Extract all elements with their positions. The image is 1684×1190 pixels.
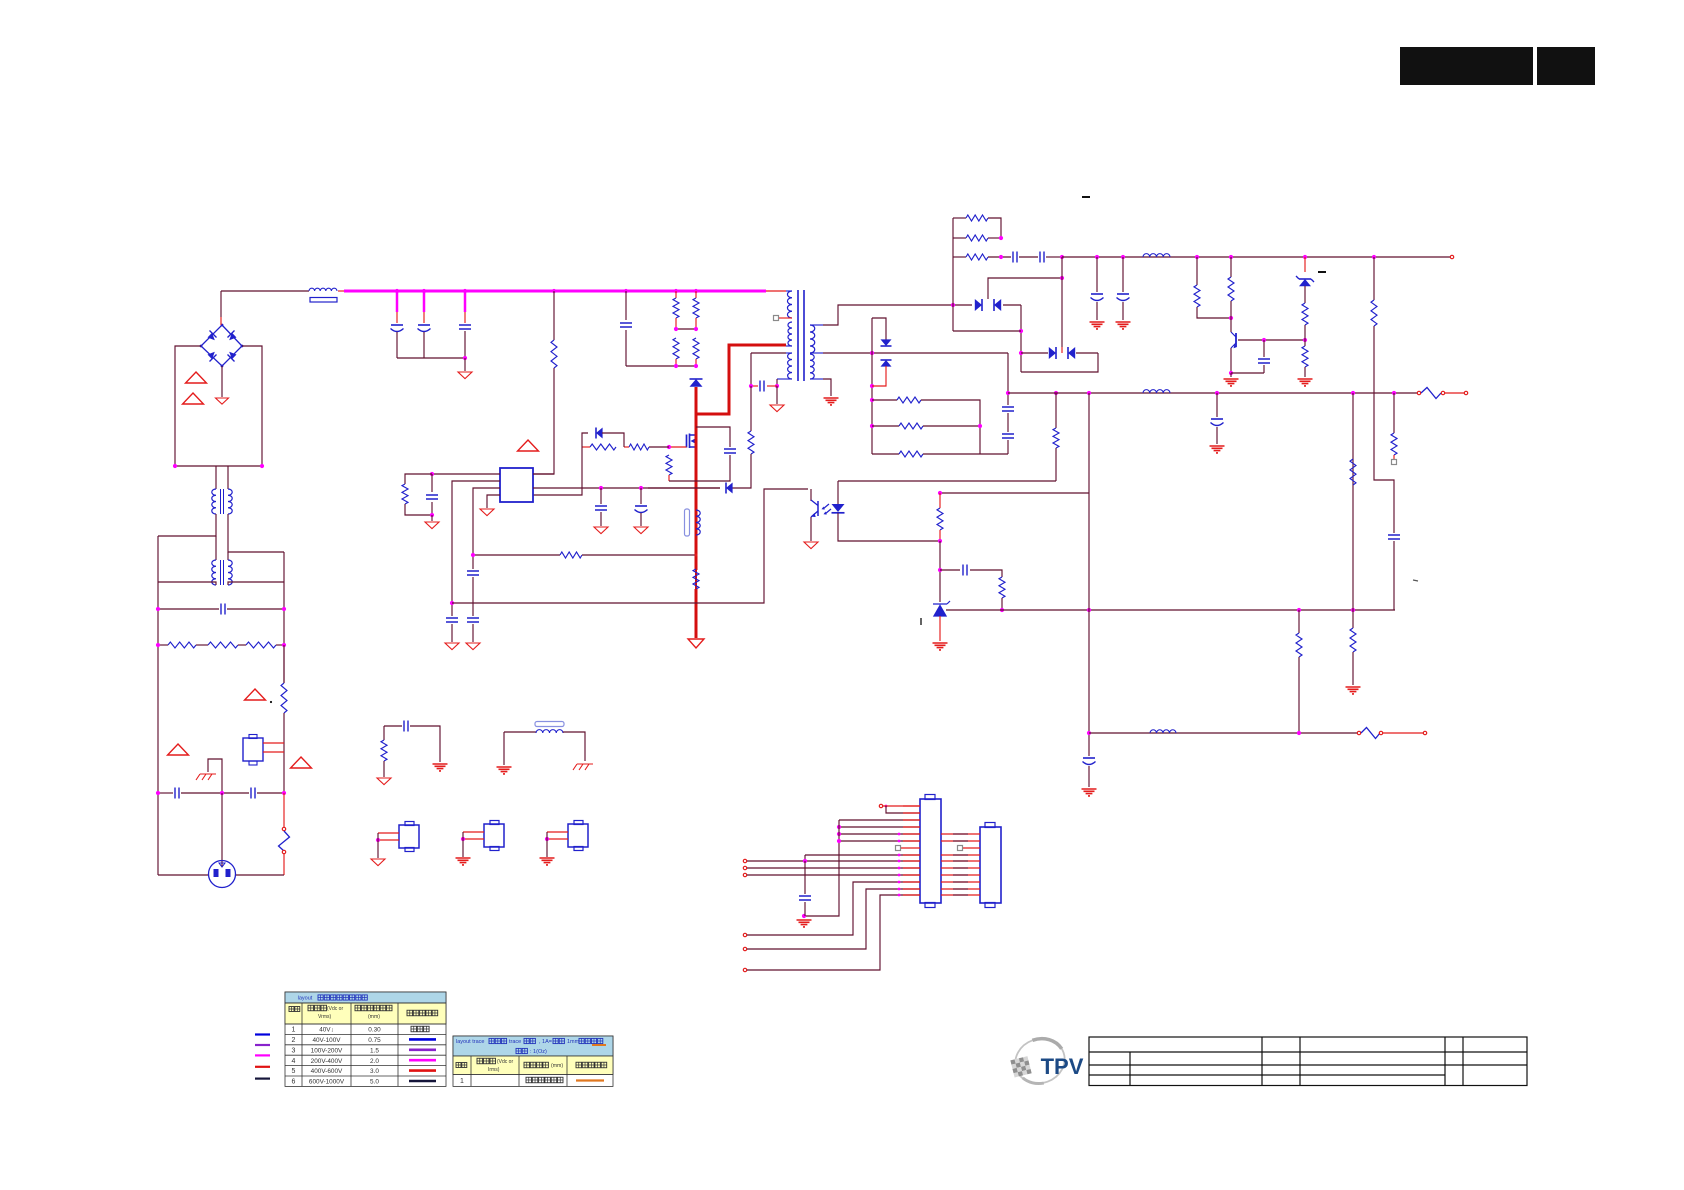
svg-text:1: 1	[460, 1078, 464, 1085]
fuse F3 right terminal	[1379, 731, 1382, 734]
wire CN1 pin red stubs	[903, 805, 920, 807]
wire CN1-CN2 link 1	[941, 840, 980, 842]
wire R33 tail	[1298, 657, 1300, 733]
wire tvs top	[872, 318, 886, 340]
wire tvs bottom	[872, 366, 886, 386]
wire R row b	[196, 644, 208, 646]
junction x872 386	[870, 384, 874, 388]
junction bus x=676	[674, 289, 678, 293]
svg-text:6: 6	[292, 1079, 296, 1086]
table1 row6 colour sample	[409, 1080, 436, 1083]
junction aux cap right	[775, 384, 779, 388]
wire CM choke LF1 leads top2	[227, 466, 229, 489]
capacitor C23	[1388, 535, 1400, 539]
inductor L4 output top	[1143, 254, 1170, 257]
resistor R18 fb	[999, 577, 1005, 598]
capacitor C4 snubber	[620, 323, 632, 327]
table1 row4 colour sample	[409, 1059, 436, 1062]
title banner block 1	[1400, 47, 1533, 85]
transistor U3 TL431	[933, 604, 947, 616]
svg-text:400V-600V: 400V-600V	[311, 1068, 343, 1075]
T1 secondary coil 1	[810, 325, 815, 353]
resistor R34 spare	[381, 740, 387, 761]
junction pin5	[837, 832, 841, 836]
junction choke top right	[260, 464, 264, 468]
label tick mark 3	[1413, 580, 1418, 581]
wire LF2 bottom right	[228, 582, 284, 585]
wire CN1 pin1	[883, 805, 920, 807]
junction x804 861	[803, 859, 807, 863]
capacitor CY1	[175, 788, 179, 799]
wire snub Rb top	[695, 291, 697, 298]
resistor R17 divider	[937, 508, 943, 530]
wire x1062 vertical	[1061, 257, 1063, 347]
junction bus x=554	[552, 289, 556, 293]
junction 257 x1197	[1195, 255, 1199, 259]
resistor R33	[1296, 633, 1302, 657]
wire aux cap right stub	[767, 385, 777, 387]
warning triangle W3	[245, 689, 266, 700]
wire snub Rd bot	[695, 359, 697, 366]
wire R27 lower	[1304, 325, 1306, 340]
wire CM choke LF1 leads top	[215, 466, 217, 489]
resistor R11 gate	[629, 444, 649, 450]
capacitor C11 vcc	[595, 506, 607, 510]
ground comp	[425, 522, 439, 529]
junction stack row2	[999, 236, 1003, 240]
resistor R35 fb tap	[1053, 428, 1059, 448]
diode D9 zener	[1299, 279, 1311, 286]
wire CN1 pin3	[839, 819, 920, 821]
resistor R21 snub	[966, 254, 988, 260]
junction x1089 733	[1087, 731, 1091, 735]
wire CN1 pin11	[747, 874, 920, 876]
svg-text:0.75: 0.75	[368, 1037, 381, 1044]
wire snub bottom row	[626, 365, 696, 367]
svg-text:5.0: 5.0	[370, 1079, 379, 1086]
junction CN1 red 0	[898, 833, 901, 836]
junction 393 x1089	[1087, 391, 1091, 395]
wire gate diode branch b	[602, 433, 624, 447]
wire X-cap row right	[227, 608, 284, 610]
resistor R29	[1371, 300, 1377, 326]
resistor R14 sense	[693, 569, 699, 589]
wire C21 stub	[1122, 257, 1124, 292]
diode D6 rectifier2	[1049, 347, 1056, 359]
wire R30 stub	[1393, 393, 1395, 433]
wire U1 pin VREF	[533, 473, 554, 475]
wire F2 out	[1445, 392, 1464, 394]
svg-text:2.0: 2.0	[370, 1058, 379, 1065]
wire CN1 pin8	[805, 854, 920, 856]
wire J4 gnd	[546, 832, 548, 857]
junction pin4	[837, 825, 841, 829]
junction snub bot b	[694, 364, 698, 368]
inductor L1 arcs	[309, 288, 337, 291]
svg-text:layout trace: layout trace	[456, 1039, 484, 1045]
ground J2	[371, 859, 385, 866]
bridge rectifier BR1	[201, 325, 242, 366]
wire out rail 733	[1089, 732, 1357, 734]
wire sec S1 riser	[823, 305, 972, 325]
junction aux cap left	[749, 384, 753, 388]
wire CN1 pin9	[747, 860, 920, 862]
wire bridge AC2	[242, 346, 262, 466]
junction 393 x1394	[1392, 391, 1396, 395]
wire spare L gnd	[503, 732, 505, 765]
wire sense R row mid	[872, 425, 899, 427]
op-amp U1 PWM controller	[500, 468, 533, 502]
wire red through sense R	[695, 570, 697, 589]
T1 aux coil	[788, 353, 792, 379]
capacitor C17 out	[1002, 407, 1014, 411]
wire stack row1 b	[988, 218, 1001, 238]
table2 h1	[456, 1063, 461, 1068]
wire sec pin S1	[810, 324, 823, 326]
bridge diode D-BL	[208, 352, 215, 359]
junction Y row left	[156, 791, 160, 795]
wire vcc rail mid	[648, 487, 720, 489]
wire R30 tail	[1393, 455, 1395, 459]
capacitor C7 comp	[426, 495, 438, 499]
wire emitter cap row	[1231, 372, 1264, 374]
table2 title c4	[579, 1038, 584, 1043]
ground C8	[445, 643, 459, 650]
resistor R2 discharge	[208, 642, 238, 648]
svg-text:1: 1	[292, 1027, 296, 1034]
terminal primary tap	[774, 316, 779, 321]
wire spare RC right	[410, 726, 440, 762]
wire cap bottoms row	[397, 357, 465, 359]
wire spare RC top	[384, 725, 402, 727]
wire fb divider rail	[938, 492, 1089, 494]
diode D8b	[881, 360, 892, 367]
wire CN1-CN2 link 6	[941, 881, 980, 883]
fuse F2 left terminal	[1417, 391, 1420, 394]
wire R17 upper stub	[939, 493, 941, 508]
wire snub Rc bot	[675, 359, 677, 366]
capacitor C9 CS	[467, 571, 479, 575]
junction Y row right	[282, 791, 286, 795]
wire spare L left	[504, 731, 536, 733]
wire snub caps out	[1046, 256, 1062, 258]
wire gate row b	[624, 446, 629, 448]
svg-text:trace: trace	[509, 1039, 521, 1045]
wire sec S3 gnd	[823, 379, 831, 396]
wire cap C22 lower	[1263, 365, 1265, 373]
junction J3	[461, 837, 465, 841]
wire J4 pin1	[547, 831, 568, 833]
wire pulldown bottom	[668, 475, 670, 481]
wire R26 col	[1230, 257, 1232, 277]
title banner block 2	[1537, 47, 1595, 85]
capacitor C10 CS2	[467, 618, 479, 622]
terminal CN1 aux	[879, 804, 882, 807]
wire rect common	[988, 278, 1062, 299]
junction shunt mid	[978, 424, 982, 428]
bridge diode D-TL	[208, 333, 215, 340]
junction fb divider top	[938, 491, 942, 495]
wire aux cap left stub	[751, 385, 758, 387]
ground secondary	[824, 398, 839, 405]
wire x804 cap upper	[804, 861, 806, 894]
wire x1374 upper	[1373, 257, 1375, 300]
junction R row right	[282, 643, 286, 647]
legend sample line 4	[255, 1066, 270, 1068]
ground spare R	[377, 778, 391, 785]
warning triangle W6	[518, 440, 539, 451]
wire choke row top	[175, 465, 262, 467]
wire snub Ra mid	[675, 318, 677, 329]
resistor R5 startup	[551, 340, 557, 368]
resistor R9 snubber	[693, 338, 699, 359]
capacitor C15 snub	[1013, 252, 1017, 263]
resistor R10 vcc feed	[748, 431, 754, 454]
wire C19 lower	[1216, 427, 1218, 444]
wire pin8 drop	[804, 855, 806, 861]
svg-text:, 1A=: , 1A=	[539, 1039, 552, 1045]
wire C8 lower	[451, 624, 453, 642]
wire sense row top b	[921, 400, 980, 454]
resistor R23 shunt	[899, 423, 923, 429]
wire R row c	[238, 644, 246, 646]
node dot near W3	[270, 701, 272, 703]
wire vcc cap2 stub	[640, 488, 642, 504]
wire RT1 lead a	[263, 742, 284, 744]
wire gate lead	[669, 446, 687, 448]
warning triangle W5	[291, 757, 312, 768]
wire left rail EMI	[157, 536, 159, 875]
junction 610 x1353	[1351, 608, 1355, 612]
logo TPV checker	[1010, 1059, 1015, 1064]
svg-text:Vrms): Vrms)	[318, 1014, 331, 1020]
junction vcc cap1	[599, 486, 603, 490]
resistor R15 sense filter	[560, 552, 582, 558]
inductor L5 output low	[1150, 730, 1176, 733]
table2 h2	[477, 1058, 483, 1064]
wire CN1 pin5	[839, 833, 920, 835]
ground J3	[456, 858, 471, 865]
wire startup lower	[533, 368, 554, 474]
wire cap C1 lower	[396, 332, 398, 358]
wire CN1-CN2 link 2	[941, 854, 980, 856]
wire C19 stub	[1216, 393, 1218, 417]
legend sample line 2	[255, 1044, 270, 1046]
junction stack row3	[999, 255, 1003, 259]
connector J2	[399, 825, 419, 848]
wire spare R lower	[383, 761, 385, 777]
wire pair2 right	[1076, 352, 1098, 354]
junction x872 426	[870, 424, 874, 428]
junction snub out	[1060, 255, 1064, 259]
connector J4	[568, 824, 588, 847]
wire snubber loop	[696, 427, 730, 447]
wire aux top lead	[786, 352, 792, 354]
T1 secondary coil 2	[810, 354, 814, 379]
wire red to gnd	[695, 589, 698, 638]
wire R row d	[276, 644, 284, 646]
resistor R27	[1302, 303, 1308, 325]
junction zener mid	[1303, 338, 1307, 342]
svg-text:(Vdc or: (Vdc or	[327, 1006, 343, 1012]
junction CN1 red 5	[898, 874, 901, 877]
wire chassis branch	[208, 759, 222, 793]
connector J3	[484, 824, 504, 847]
capacitor CY2	[251, 788, 255, 799]
wire fb tap lower	[1055, 448, 1057, 481]
wire vcc feed upper	[750, 386, 752, 431]
junction 257 x1231	[1229, 255, 1233, 259]
table legend voltage-clearance	[285, 992, 446, 1086]
junction bus x=696	[694, 289, 698, 293]
wire Q2 collector	[1230, 318, 1232, 332]
wire comp RC b	[405, 504, 431, 515]
wire D1 anode red	[695, 387, 698, 414]
junction FB at bus	[450, 601, 454, 605]
wire drive riser	[533, 447, 582, 495]
junction bus x=465	[463, 289, 467, 293]
wire bus cap stub 2	[423, 291, 426, 312]
wire comp cap lower	[431, 502, 433, 515]
bridge diode D-BR	[229, 352, 236, 359]
wire gate diode branch	[582, 433, 588, 447]
wire cap C22 stub	[1263, 340, 1265, 357]
junction x804 916	[802, 914, 806, 918]
wire red below CT	[695, 536, 698, 570]
junction opto-divider	[938, 539, 942, 543]
junction J4	[545, 837, 549, 841]
wire pair2 left	[1021, 352, 1048, 354]
junction Y row mid	[220, 791, 224, 795]
thermistor RT1 box	[243, 738, 263, 761]
ground TL431	[933, 643, 948, 650]
ground spare RC	[433, 764, 448, 771]
wire bridge minus to ground	[221, 366, 223, 397]
svg-text:(mm): (mm)	[551, 1063, 563, 1069]
legend sample line 1	[255, 1033, 270, 1035]
resistor R6 snubber	[673, 298, 679, 318]
wire snub mid row	[676, 328, 696, 330]
svg-text:1mm: 1mm	[567, 1039, 580, 1045]
svg-text:1.5: 1.5	[370, 1047, 379, 1054]
wire LF2 bottom left	[158, 582, 216, 585]
junction bus x=626	[624, 289, 628, 293]
wire CN1-CN2 link 0	[941, 833, 980, 835]
table2 title line2	[516, 1048, 521, 1053]
wire CN1-CN2 link 5	[941, 874, 980, 876]
table1 h3	[355, 1005, 361, 1011]
legend sample line 3	[255, 1054, 270, 1056]
wire LF1 out left	[158, 514, 216, 536]
wire bus cap stub 1	[396, 291, 399, 312]
wire bridge top lead	[220, 317, 222, 325]
wire spare L right	[563, 732, 585, 761]
table2 h3	[524, 1062, 530, 1068]
wire RT1 lead b	[263, 751, 284, 753]
wire comp gnd stub	[431, 515, 433, 521]
wire ref row a	[940, 569, 960, 571]
logo TPV swoosh	[1009, 1032, 1071, 1090]
resistor R25	[1194, 285, 1200, 307]
ground C19	[1210, 446, 1225, 453]
table legend trace-width	[453, 1036, 613, 1086]
wire J2 pin1	[378, 832, 399, 834]
junction rail393 x1056	[1054, 391, 1058, 395]
wire pair2 loop	[1021, 353, 1098, 372]
wire out rail 393	[1008, 392, 1417, 394]
wire comp RC a	[405, 474, 432, 484]
junction CN1 red 3	[898, 860, 901, 863]
ground C11	[594, 527, 608, 534]
wire snubber cap lower	[625, 330, 627, 366]
table1 row3 colour sample	[409, 1049, 436, 1052]
wire LF2 top right	[227, 552, 229, 560]
wire startup upper	[553, 291, 555, 340]
wire U1 pin GND	[487, 495, 500, 508]
ground zener chain	[1298, 379, 1313, 386]
fuse F1 top terminal	[282, 827, 285, 830]
svg-text:600V-1000V: 600V-1000V	[309, 1079, 345, 1086]
label tl431 mark	[920, 618, 922, 625]
junction rect common	[1060, 276, 1064, 280]
wire below R4	[283, 713, 285, 793]
wire x1353 column	[1352, 393, 1354, 610]
resistor R22 shunt	[897, 397, 921, 403]
junction pin6	[837, 839, 841, 843]
chassis ground CG1	[196, 774, 216, 780]
wire spare R upper	[383, 726, 385, 740]
wire emitter gnd stub	[1230, 373, 1232, 377]
table1 h4	[407, 1010, 413, 1016]
junction snub mid a	[674, 327, 678, 331]
wire tap stub	[779, 317, 792, 319]
wire aux bot lead	[777, 378, 792, 380]
wire R17 lower stub	[939, 530, 941, 541]
ground R32	[1346, 687, 1361, 694]
capacitor C22	[1258, 359, 1270, 363]
svg-text:100V-200V: 100V-200V	[311, 1047, 343, 1054]
wire x804 cap lower	[804, 902, 806, 916]
capacitor C8 FB	[446, 618, 458, 622]
wire L1 to bus	[338, 290, 345, 292]
wire Y-cap row b	[181, 792, 249, 794]
wire U1 pin FB	[452, 481, 500, 616]
wire out rail 257	[1062, 256, 1450, 258]
wire C10 lower	[472, 624, 474, 642]
terminal sig5	[743, 947, 746, 950]
wire aux bottom down	[776, 379, 778, 386]
junction comp node	[430, 472, 434, 476]
wire J4 pin2	[547, 838, 568, 840]
capacitor C18 out	[1002, 434, 1014, 438]
junction CN1 red 7	[898, 888, 901, 891]
wire stack left vertical	[952, 218, 954, 331]
wire C20 stub	[1096, 257, 1098, 292]
LF1 winding B	[228, 489, 232, 514]
wire R28 lower	[1304, 367, 1306, 377]
AC plug P1	[209, 861, 236, 888]
wire red through CT	[695, 509, 698, 536]
wire x1089 long vertical	[1088, 393, 1090, 756]
wire fb bus	[452, 489, 808, 603]
junction 610 x1299	[1297, 608, 1301, 612]
LF1 winding A	[212, 489, 216, 514]
wire bus left segment	[221, 290, 309, 292]
junction base cap	[1262, 338, 1266, 342]
wire R32 tail	[1352, 652, 1354, 685]
wire F3 out	[1383, 732, 1423, 734]
wire snub caps mid	[1019, 256, 1038, 258]
